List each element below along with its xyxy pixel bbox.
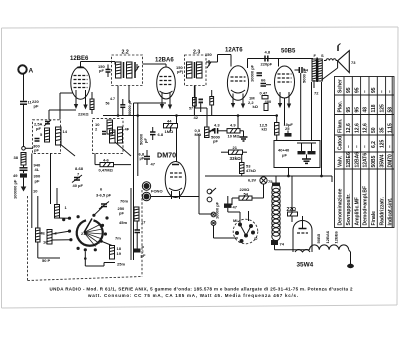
resistor 490 <box>264 99 272 111</box>
svg-text:47: 47 <box>233 205 238 210</box>
wire IF2 to 12AT6 grid <box>206 55 231 67</box>
svg-text:12,6: 12,6 <box>363 123 369 133</box>
capacitor 66 <box>261 78 272 87</box>
svg-text:50: 50 <box>42 258 47 263</box>
coil 14 tall between boxes <box>56 127 68 145</box>
svg-text:4-6: 4-6 <box>103 158 110 163</box>
svg-text:95: 95 <box>354 107 360 113</box>
svg-text:–: – <box>354 145 360 148</box>
wire switch bottom down <box>84 251 104 266</box>
resistor 4.9 10Mohm <box>227 123 244 139</box>
wire 12BA6 plate to IF2 <box>165 64 167 67</box>
svg-text:45m: 45m <box>119 220 127 225</box>
speaker 73 <box>322 44 357 81</box>
svg-text:Amplific.MF: Amplific.MF <box>354 197 360 225</box>
svg-text:4.3: 4.3 <box>214 123 220 128</box>
svg-text:Denominazione: Denominazione <box>338 188 344 225</box>
wire IF1 to 12BA6 <box>143 64 167 67</box>
tube 12BA6 <box>155 58 175 110</box>
wire coil connectors <box>57 217 70 219</box>
svg-text:22KΩ: 22KΩ <box>78 112 89 117</box>
svg-text:10000 pF: 10000 pF <box>215 201 220 219</box>
svg-text:–: – <box>379 90 385 93</box>
wire box to 12BE6 pin <box>49 110 76 120</box>
svg-text:pF: pF <box>99 68 104 73</box>
wire IF1 secondary down <box>117 86 119 116</box>
avc network resistor 48 <box>189 86 196 116</box>
capacitor 250pF padder <box>118 199 129 216</box>
svg-text:–: – <box>388 145 394 148</box>
svg-text:10000 pF: 10000 pF <box>250 64 255 82</box>
filter box 40+40uF <box>274 141 320 168</box>
tube 50B5 <box>275 49 297 109</box>
svg-text:kΩ: kΩ <box>262 127 268 132</box>
wire left loop <box>32 154 60 259</box>
svg-text:4.7: 4.7 <box>110 97 115 101</box>
svg-text:12,6: 12,6 <box>354 123 360 133</box>
svg-text:12BA6: 12BA6 <box>155 58 174 64</box>
svg-text:100000 pF: 100000 pF <box>13 179 18 199</box>
valve data table <box>335 77 395 228</box>
table row DM70 <box>388 90 394 226</box>
capacitor b c pF right <box>134 221 146 258</box>
capacitor 150pF IF1 <box>98 64 111 77</box>
svg-text:66: 66 <box>261 78 266 83</box>
resistor 22ohm <box>287 176 298 222</box>
svg-text:72: 72 <box>314 91 319 96</box>
svg-text:56: 56 <box>106 102 110 106</box>
switch on-off contacts <box>199 134 238 238</box>
svg-text:–: – <box>363 90 369 93</box>
capacitor 49 100000pF <box>13 165 28 199</box>
wire junction to coil box <box>25 147 33 149</box>
antenna coil dashed box left <box>33 120 61 154</box>
capacitor 150pF IF2 left <box>176 65 184 74</box>
wire antenna down <box>23 74 25 101</box>
svg-text:–: – <box>363 145 369 148</box>
svg-text:25: 25 <box>285 126 290 131</box>
svg-text:73: 73 <box>351 60 356 65</box>
svg-text:S: S <box>321 53 324 58</box>
svg-text:12BA6: 12BA6 <box>325 230 330 243</box>
svg-text:58: 58 <box>388 107 394 113</box>
svg-text:Indicat.sint.: Indicat.sint. <box>388 197 394 225</box>
table row 12BE6 <box>346 87 352 225</box>
svg-text:4E: 4E <box>40 231 45 236</box>
ground 12AT6 grid network <box>240 131 248 141</box>
svg-text:6,2: 6,2 <box>371 141 377 148</box>
pilot lamp 75 6,3V <box>248 176 273 198</box>
svg-text:118: 118 <box>371 104 377 112</box>
svg-text:UNDA RADIO - Mod. R 61/1, SERI: UNDA RADIO - Mod. R 61/1, SERIE ANIX, 5 … <box>50 287 353 292</box>
svg-text:Scher: Scher <box>338 79 344 93</box>
coil 3 far left <box>33 189 40 259</box>
capacitor 10000pF <box>250 64 263 82</box>
svg-text:74: 74 <box>280 242 285 247</box>
coil 38 antenna choke <box>14 153 27 166</box>
wire to ground arrow <box>21 178 27 192</box>
capacitor 50000pF <box>139 127 164 145</box>
svg-text:12BE6: 12BE6 <box>346 152 352 168</box>
svg-text:watt. Consumo: CC 75 mA, CA 18: watt. Consumo: CC 75 mA, CA 185 mA, Watt… <box>87 293 298 298</box>
wire risers from tubes to rail <box>134 102 167 104</box>
label 1M 2.2 <box>248 96 259 110</box>
svg-text:6,3V: 6,3V <box>248 178 257 183</box>
svg-text:pF: pF <box>34 103 39 108</box>
table row 35W4 <box>379 90 385 226</box>
band switch arrow left box <box>60 144 75 156</box>
svg-text:A: A <box>29 68 34 75</box>
svg-text:47kΩ: 47kΩ <box>246 168 257 173</box>
switch contact dots <box>62 214 108 252</box>
ballast coil 74 <box>271 176 310 250</box>
svg-text:95: 95 <box>346 87 352 93</box>
table row 12AT6 <box>363 90 369 226</box>
svg-text:1MΩ: 1MΩ <box>165 129 175 134</box>
dashed gang link vertical 1 <box>27 196 29 281</box>
resistor 23kohm <box>221 145 247 161</box>
tube DM70 <box>157 128 186 199</box>
coil 18 19 below right <box>110 236 122 260</box>
tube 35W4 rectifier <box>293 221 314 269</box>
svg-text:12BA6: 12BA6 <box>354 152 360 168</box>
svg-text:4F: 4F <box>125 127 130 132</box>
svg-text:4.8: 4.8 <box>265 50 271 55</box>
svg-text:50B5: 50B5 <box>281 49 296 55</box>
svg-text:49: 49 <box>13 173 18 178</box>
antenna terminal A <box>18 65 33 74</box>
svg-text:16: 16 <box>43 240 48 245</box>
svg-text:10: 10 <box>33 189 38 194</box>
capacitor 4.3 5000pF <box>210 123 228 144</box>
svg-text:Valv.: Valv. <box>338 155 344 167</box>
resistor 44 1Mohm <box>164 116 178 135</box>
svg-text:95: 95 <box>371 87 377 93</box>
table row 12BA6 <box>354 87 360 225</box>
svg-text:Catod: Catod <box>338 136 344 150</box>
svg-text:0.47: 0.47 <box>260 91 269 96</box>
svg-text:220pF: 220pF <box>261 62 273 67</box>
wire 12BE6 grid left <box>60 93 73 120</box>
svg-text:μF: μF <box>282 153 287 158</box>
node antenna junction <box>22 147 26 151</box>
potentiometer 42 0,5Mohm volume <box>194 115 215 138</box>
svg-text:1,15: 1,15 <box>388 123 394 133</box>
capacitor 50000pF avc <box>128 99 132 116</box>
svg-text:7m: 7m <box>115 236 121 241</box>
svg-text:DM70: DM70 <box>388 154 394 168</box>
band switch arrow right box <box>115 142 131 156</box>
svg-text:0,47MΩ: 0,47MΩ <box>99 168 114 173</box>
coil 17 right of switch <box>134 207 146 225</box>
resistor diode load <box>210 90 214 116</box>
svg-text:MI: MI <box>233 218 237 223</box>
resistor 4.6 0,47Mohm <box>95 153 131 172</box>
tube 12AT6 <box>225 48 249 109</box>
table row 50B5 <box>371 87 377 225</box>
svg-text:35W4: 35W4 <box>379 154 385 167</box>
resistor 22K ohm cathode <box>78 92 94 117</box>
svg-text:–: – <box>346 145 352 148</box>
svg-text:8-68: 8-68 <box>75 166 84 171</box>
svg-text:pF: pF <box>36 126 41 131</box>
svg-text:25m: 25m <box>117 262 125 267</box>
resistor 12,5 kohm screen <box>260 116 280 141</box>
rotary band switch 21 <box>77 219 103 247</box>
svg-text:Raddrizzatr.: Raddrizzatr. <box>379 197 385 226</box>
capacitor 47 10000pF line filter <box>215 196 238 219</box>
capacitor 56 4.7 <box>106 97 126 116</box>
wire heater rail <box>205 168 332 183</box>
wire IF2 secondary down <box>194 86 196 109</box>
svg-text:DM70: DM70 <box>157 151 176 160</box>
resistor 54 220ohm <box>232 187 264 205</box>
trimmer 7 40pF <box>72 172 84 189</box>
svg-text:pF: pF <box>35 179 40 184</box>
dashed gang link horizontal <box>28 277 143 281</box>
resistor 53 47kohm <box>240 155 257 177</box>
svg-text:44: 44 <box>167 119 172 124</box>
coil 1 left <box>55 188 68 218</box>
svg-text:40 pF: 40 pF <box>73 183 84 188</box>
tube 12BE6 <box>70 56 90 110</box>
svg-text:FONO: FONO <box>151 189 163 194</box>
heater chain scallops <box>310 245 354 268</box>
svg-text:pF: pF <box>143 138 148 143</box>
wire right verticals to switch <box>130 188 132 260</box>
svg-text:kΩ: kΩ <box>253 104 259 109</box>
output transformer 72 <box>312 53 324 176</box>
svg-text:48: 48 <box>363 107 369 113</box>
svg-text:33kΩ: 33kΩ <box>230 156 242 161</box>
mains plug dashed circle <box>228 211 258 244</box>
svg-text:35: 35 <box>379 127 385 133</box>
svg-text:125: 125 <box>379 139 385 148</box>
svg-text:4.9: 4.9 <box>230 123 236 128</box>
svg-text:95: 95 <box>354 87 360 93</box>
wire 35W4 plate top <box>302 216 304 222</box>
svg-text:∅: ∅ <box>254 236 258 241</box>
svg-text:95: 95 <box>346 107 352 113</box>
labels 940 4L 300pF <box>34 163 41 184</box>
oscillator coil dashed box right <box>93 118 130 153</box>
coil 2 left lower <box>40 230 58 245</box>
svg-text:125: 125 <box>379 104 385 113</box>
svg-text:pF: pF <box>141 253 146 258</box>
svg-text:50B5: 50B5 <box>316 233 321 243</box>
capacitor 11 220pF <box>20 99 39 108</box>
svg-text:10 MΩ: 10 MΩ <box>228 134 241 139</box>
svg-text:Finale: Finale <box>371 211 377 226</box>
table header labels <box>338 79 344 225</box>
svg-text:50B5: 50B5 <box>371 155 377 167</box>
svg-text:3-6,5 pF: 3-6,5 pF <box>96 193 112 198</box>
svg-text:19: 19 <box>117 251 122 256</box>
svg-text:pF: pF <box>34 148 39 153</box>
capacitor 47 6.8uF <box>139 150 156 167</box>
svg-text:47: 47 <box>151 162 156 167</box>
svg-text:pF: pF <box>119 211 124 216</box>
IF transformer 2.2 dashed box <box>112 50 143 86</box>
trimmer 6 3-6,5pF <box>96 187 112 210</box>
IF transformer 2.3 dashed box <box>185 50 213 86</box>
svg-text:38: 38 <box>14 155 19 160</box>
wire antenna lower <box>23 104 25 147</box>
svg-text:42: 42 <box>194 115 199 120</box>
svg-text:12AT6: 12AT6 <box>225 48 243 54</box>
trimmer 8-68 40pF label <box>75 166 84 171</box>
svg-text:12AT6: 12AT6 <box>363 153 369 168</box>
svg-text:14: 14 <box>63 129 68 134</box>
svg-text:–: – <box>388 90 394 93</box>
svg-text:50: 50 <box>371 127 377 133</box>
wire 12AT6 plate up <box>248 59 314 69</box>
svg-text:pF: pF <box>213 139 218 144</box>
capacitor 10uF cathode <box>284 98 294 137</box>
svg-text:Demod+ampl.BF: Demod+ampl.BF <box>363 186 369 226</box>
svg-text:4L: 4L <box>35 167 40 172</box>
svg-text:6.8: 6.8 <box>158 132 164 137</box>
capacitor 4.8 220pF coupling <box>261 50 273 67</box>
wire 12BE6 plate to IF1 <box>81 62 116 67</box>
svg-text:Sovrappositr.: Sovrappositr. <box>346 193 352 226</box>
capacitor 0.47 <box>260 91 269 99</box>
capacitor 44 5000pF <box>295 67 312 141</box>
dashed gang link vertical 2 <box>141 190 143 277</box>
svg-text:21: 21 <box>233 145 238 150</box>
svg-text:Filam.: Filam. <box>338 118 344 133</box>
capacitor avc black <box>199 99 204 113</box>
svg-text:12BE6: 12BE6 <box>334 230 339 243</box>
svg-text:12,6: 12,6 <box>346 123 352 133</box>
terminal FONO <box>142 182 199 214</box>
svg-text:5000 pF: 5000 pF <box>302 68 307 83</box>
svg-text:57: 57 <box>189 107 193 111</box>
svg-text:P: P <box>48 258 51 263</box>
label 50 pF bottom <box>42 258 51 263</box>
wire 12AT6 grid down <box>237 116 239 129</box>
svg-text:MΩ: MΩ <box>195 132 202 137</box>
svg-text:Plac.: Plac. <box>338 100 344 112</box>
svg-text:70m: 70m <box>120 199 128 204</box>
svg-text:pF): pF) <box>177 69 184 74</box>
svg-text:35W4: 35W4 <box>297 262 314 269</box>
node rail junctions <box>137 114 140 117</box>
wire B+ rail <box>103 115 278 117</box>
